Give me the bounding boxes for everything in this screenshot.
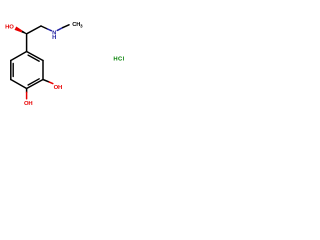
bond N-CH3 black half bbox=[63, 25, 69, 28]
ring edge TL-T bbox=[11, 52, 27, 61]
bond C2-N blue half bbox=[48, 29, 52, 31]
svg-text:OH: OH bbox=[24, 101, 32, 107]
svg-text:HO: HO bbox=[5, 24, 14, 30]
bond B-OH red half bbox=[26, 92, 28, 99]
svg-text:CH3: CH3 bbox=[72, 22, 83, 29]
background bbox=[0, 0, 130, 130]
bond BR-OH black half bbox=[43, 80, 49, 83]
ring edge T-TR bbox=[27, 52, 43, 61]
bond C2-N black half bbox=[41, 26, 48, 29]
ring edge B-BL bbox=[11, 80, 27, 89]
bond C1-C2 (CH2) bbox=[27, 26, 41, 34]
wedge bond C1-OH (black half) bbox=[21, 31, 26, 35]
ring edge BL-TL bbox=[10, 61, 12, 80]
svg-text:H: H bbox=[52, 35, 56, 41]
bond BR-OH red half bbox=[49, 82, 53, 84]
bond C1-ring bbox=[26, 34, 28, 52]
bond N-CH3 blue half bbox=[57, 28, 63, 31]
ring double bond inner T-TR bbox=[28, 55, 39, 61]
ring edge BR-B bbox=[27, 80, 43, 89]
ring double bond inner BL-TL bbox=[12, 64, 14, 77]
bond B-OH black half bbox=[26, 89, 28, 93]
ring double bond inner B-BR bbox=[28, 79, 39, 85]
svg-text:HCl: HCl bbox=[113, 56, 124, 62]
svg-text:OH: OH bbox=[54, 85, 62, 91]
ring edge TR-BR bbox=[42, 61, 44, 80]
wedge bond C1-OH (red half) bbox=[15, 27, 23, 33]
